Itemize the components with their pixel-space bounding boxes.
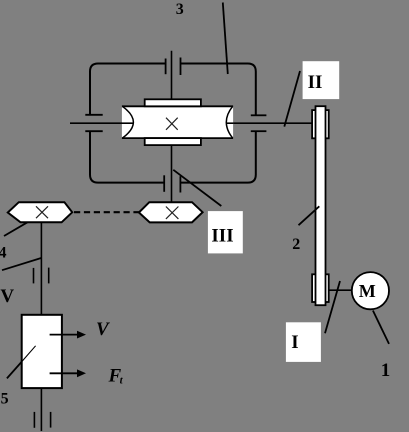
svg-text:M: M <box>359 281 376 301</box>
svg-text:3: 3 <box>176 1 184 18</box>
svg-text:III: III <box>211 225 233 246</box>
svg-text:5: 5 <box>1 391 9 408</box>
svg-text:V: V <box>96 319 110 340</box>
svg-text:II: II <box>308 72 323 93</box>
svg-text:1: 1 <box>381 360 391 381</box>
svg-text:IV: IV <box>0 286 14 307</box>
svg-text:I: I <box>291 332 298 353</box>
svg-text:4: 4 <box>0 245 7 262</box>
svg-text:2: 2 <box>292 236 300 253</box>
